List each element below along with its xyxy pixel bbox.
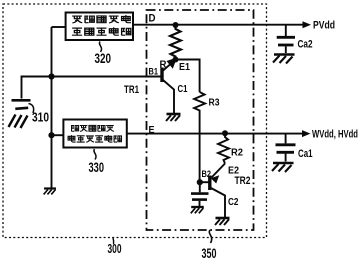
svg-text:300: 300 [108, 241, 122, 256]
box 320 [66, 13, 133, 41]
ground 310 hatch [9, 115, 28, 129]
svg-text:Ca2: Ca2 [298, 39, 313, 51]
label 310 leader [29, 104, 34, 114]
transistor TR1 emitter arrow [167, 58, 178, 69]
wire PVdd rail [133, 24, 304, 26]
svg-text:R2: R2 [231, 147, 243, 159]
svg-text:320: 320 [95, 50, 112, 66]
transistor TR1 emitter [163, 60, 176, 71]
wire from box 320 left edge to left vertical [52, 26, 66, 28]
svg-text:E1: E1 [179, 61, 190, 73]
svg-text:R3: R3 [209, 97, 220, 109]
transistor TR2 emitter arrow [211, 175, 219, 183]
node junction D [173, 22, 179, 28]
capacitor Ca2 top plate [277, 36, 295, 39]
transistor TR1 collector [163, 80, 174, 113]
ground G2 under TR1 [166, 114, 181, 121]
wire left vertical line [51, 27, 53, 188]
wire WVdd rail [127, 133, 303, 135]
node junction left/base [48, 73, 54, 79]
ground G3 under left vertical [44, 189, 56, 195]
resistor R1 [170, 25, 181, 60]
svg-text:TR2: TR2 [235, 175, 251, 187]
svg-text:PVdd: PVdd [313, 20, 335, 32]
capacitor plate 310 top [12, 99, 31, 102]
arrow PVdd [303, 21, 312, 28]
svg-text:Ca1: Ca1 [298, 148, 313, 160]
label 320 leader [99, 42, 101, 53]
wire box330 left [52, 134, 64, 136]
label 350 leader [209, 230, 211, 243]
ground G7 under Ca1 [272, 163, 294, 172]
label 300 leader [112, 238, 115, 244]
wire B2 node to base [200, 181, 209, 183]
box 320 text line 1 元件驱动电 [72, 15, 131, 23]
svg-text:350: 350 [202, 245, 217, 261]
box 330 [63, 120, 126, 148]
svg-text:E: E [149, 125, 155, 136]
svg-text:B2: B2 [202, 169, 212, 180]
svg-text:310: 310 [32, 110, 49, 125]
capacitor Ca2 lower stem [285, 46, 287, 53]
resistor R3 [194, 92, 205, 112]
ground G4 under B2 capacitor [191, 207, 204, 213]
capacitor Ca1 stem [285, 134, 287, 144]
svg-text:B1: B1 [149, 67, 159, 78]
node junction E1 [173, 57, 179, 63]
svg-text:WVdd, HVdd: WVdd, HVdd [312, 129, 358, 141]
resistor R2 [218, 133, 229, 163]
label 330 leader [94, 149, 96, 160]
capacitor under B2 bottom plate [192, 198, 207, 201]
capacitor under B2 stem [199, 182, 201, 192]
ground G5 under TR2 collector [215, 218, 230, 225]
wire to ground terminal 310 [22, 77, 52, 99]
node junction left/box330 [48, 132, 54, 138]
outer dashed border 300 [3, 4, 267, 238]
capacitor Ca2 bottom plate [278, 44, 294, 47]
svg-text:D: D [149, 13, 156, 25]
inner dash-dot box 350 [147, 10, 254, 230]
capacitor Ca1 bottom plate [277, 151, 295, 154]
box 330 text line 1 驱动器驱动 [72, 125, 114, 131]
node junction R2 top [222, 130, 228, 136]
capacitor Ca2 stem [285, 25, 287, 36]
wire R3 bottom through rail to B2 node [199, 112, 201, 182]
ground G6 under Ca2 [273, 55, 295, 64]
capacitor plate 310 bottom [15, 108, 28, 109]
transistor TR1 base bar [160, 68, 163, 83]
transistor TR2 collector [211, 188, 225, 217]
transistor TR2 emitter [212, 164, 226, 178]
arrow WVdd [302, 130, 311, 137]
capacitor under B2 lower stem [199, 201, 201, 206]
node junction B2 [197, 179, 203, 185]
box 320 text line 2 压发生电路 [72, 27, 131, 35]
wire E1 node to R3 [176, 60, 200, 93]
svg-text:TR1: TR1 [124, 84, 139, 96]
svg-text:C2: C2 [228, 196, 239, 208]
capacitor Ca1 top plate [276, 143, 296, 146]
transistor TR2 base bar [208, 176, 211, 191]
capacitor under B2 top plate [191, 192, 209, 195]
box 330 text line 2 电压发生电路 [68, 135, 121, 142]
svg-text:C1: C1 [178, 83, 188, 95]
wire TR1 base from left vertical [52, 76, 161, 78]
svg-text:330: 330 [89, 159, 105, 175]
capacitor Ca1 lower stem [285, 154, 287, 162]
